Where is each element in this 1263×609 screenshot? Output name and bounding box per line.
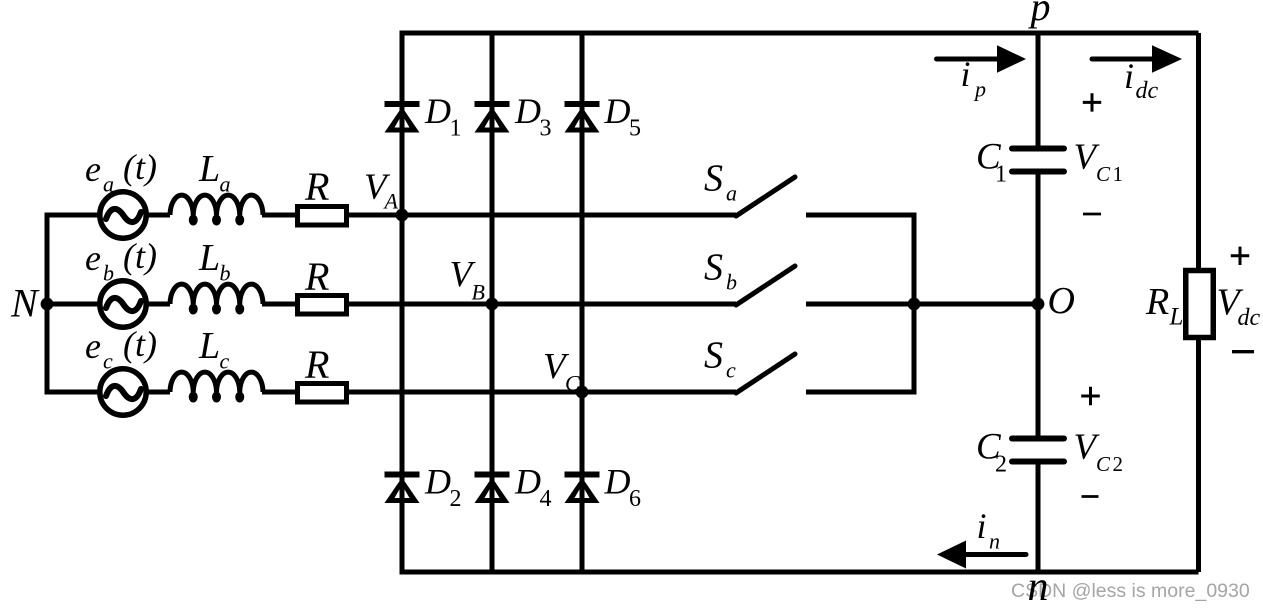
svg-text:c: c [220,349,230,374]
label minus C1 [1083,213,1101,216]
svg-text:i: i [961,54,971,94]
svg-text:(t): (t) [123,324,157,364]
junction switch bus [908,298,921,311]
label VB [450,255,485,305]
wire diode leg column 3 [580,33,585,572]
wire top dc bus p [400,31,1199,36]
label idc [1124,56,1159,104]
svg-text:i: i [1124,56,1134,96]
svg-text:c: c [103,349,113,374]
current arrow idc [1092,45,1182,73]
inductor Lc [170,372,263,392]
wire right load branch lower [1196,338,1201,572]
label RL [1145,281,1183,331]
svg-text:1: 1 [450,116,462,142]
svg-text:6: 6 [629,486,641,512]
svg-text:L: L [198,148,220,190]
label VC [543,347,580,396]
wire capacitor branch lower [1036,462,1041,573]
svg-text:e: e [85,149,101,189]
diode D6 [565,475,600,504]
wire phase a row [45,213,737,218]
wire switch output c [806,390,917,395]
svg-text:p: p [973,77,986,102]
switch Sa [736,177,795,216]
svg-text:S: S [704,158,723,200]
current arrow in [937,541,1026,569]
svg-text:dc: dc [1136,78,1159,104]
svg-text:S: S [704,335,723,377]
label Vdc [1217,282,1261,332]
label ec(t) [85,324,157,374]
node VA [396,209,409,222]
svg-text:c: c [726,358,736,383]
wire midpoint to node O [914,302,1038,307]
resistor RL [1186,271,1214,338]
wire switch output a [806,213,917,218]
label plus C2 [1081,387,1100,406]
label eb(t) [85,236,157,286]
svg-text:R: R [1145,281,1169,323]
svg-text:a: a [726,181,737,206]
svg-text:3: 3 [540,116,552,142]
label C2 [976,427,1007,478]
svg-text:p: p [1028,0,1051,29]
source eb [100,281,146,327]
svg-text:C: C [1096,162,1111,186]
svg-text:a: a [103,172,114,197]
svg-text:N: N [10,281,40,326]
svg-text:R: R [304,164,329,209]
svg-text:D: D [604,91,631,131]
label ip [961,54,987,102]
svg-text:n: n [989,529,1000,554]
svg-text:R: R [304,342,329,387]
label minus C2 [1082,495,1099,498]
source ea [100,192,146,238]
svg-text:R: R [304,254,329,299]
label D6 [604,462,642,513]
current arrow ip [937,45,1027,73]
label D1 [424,91,462,142]
capacitor C2 [1012,439,1064,462]
diode D3 [475,104,510,133]
svg-text:S: S [704,247,723,289]
wire switch output b [806,302,914,307]
svg-text:D: D [514,462,541,502]
svg-text:D: D [604,462,631,502]
switch Sb [736,266,795,305]
label La [198,148,231,197]
switch Sc [736,354,795,393]
label minus Vdc [1232,350,1254,353]
svg-text:4: 4 [540,486,552,512]
svg-text:A: A [383,189,399,214]
inductor La [170,195,263,215]
wire diode leg column 1 [400,33,405,572]
node VB [486,298,499,311]
svg-text:i: i [977,506,987,546]
label Lc [198,325,230,374]
capacitor C1 [1012,149,1064,172]
label D2 [424,462,462,513]
svg-text:C: C [1096,452,1111,476]
diode D4 [475,475,510,504]
wire phase b row [45,302,737,307]
svg-text:e: e [85,238,101,278]
label Sb [704,247,737,295]
svg-text:b: b [726,270,737,295]
label Sa [704,158,737,206]
source ec [100,369,146,415]
resistor R phase a [298,207,347,226]
diode D5 [565,104,600,133]
label VC2 [1074,427,1124,476]
svg-text:1: 1 [1113,162,1124,186]
diode D2 [385,475,420,504]
wire phase c row [45,390,737,395]
wire left neutral vertical [45,213,50,395]
svg-text:L: L [198,237,220,279]
label ea(t) [85,147,157,197]
svg-text:(t): (t) [123,147,157,187]
label VA [364,167,399,214]
label plus Vdc [1231,247,1249,265]
svg-text:2: 2 [450,486,462,512]
svg-text:b: b [103,261,114,286]
diode D1 [385,104,420,133]
label plus C1 [1083,93,1101,111]
wire switch common bus [912,215,917,392]
label D4 [514,462,552,513]
node N [41,298,54,311]
svg-text:C: C [565,371,580,396]
wire right load branch upper [1196,33,1201,270]
svg-text:1: 1 [995,162,1007,188]
svg-text:2: 2 [1113,452,1124,476]
resistor R phase b [298,296,347,315]
label C1 [976,137,1007,188]
wire capacitor branch middle [1036,172,1041,439]
svg-text:dc: dc [1238,305,1261,331]
wire capacitor branch upper [1036,33,1041,149]
svg-text:(t): (t) [123,236,157,276]
svg-text:L: L [198,325,220,367]
svg-text:5: 5 [629,116,641,142]
wire bottom dc bus n [400,570,1199,575]
label VC1 [1074,137,1124,186]
svg-text:n: n [1028,564,1049,609]
node O [1032,298,1045,311]
svg-text:a: a [220,172,231,197]
label Sc [704,335,736,383]
resistor R phase c [298,384,347,403]
svg-text:B: B [472,280,485,305]
svg-text:b: b [220,261,231,286]
label Lb [198,237,231,286]
label D3 [514,91,552,142]
svg-text:D: D [424,91,451,131]
svg-text:D: D [424,462,451,502]
label D5 [604,91,642,142]
svg-text:e: e [85,326,101,366]
wire diode leg column 2 [490,33,495,572]
label in [977,506,1001,554]
svg-text:O: O [1048,280,1075,322]
node VC [576,386,589,399]
svg-text:L: L [1169,304,1184,331]
svg-text:D: D [514,91,541,131]
svg-text:2: 2 [995,452,1007,478]
inductor Lb [170,284,263,304]
